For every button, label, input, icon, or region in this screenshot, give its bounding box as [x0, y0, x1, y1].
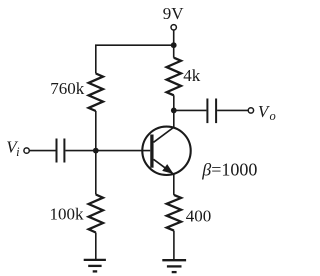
- supply terminal: [171, 25, 176, 30]
- ground right: [162, 260, 186, 272]
- resistor R3 100k: [89, 195, 103, 233]
- wire C1 to base: [65, 150, 150, 152]
- ground left: [84, 260, 106, 272]
- resistor R1 760k: [89, 74, 103, 112]
- input terminal: [24, 148, 29, 153]
- svg-text:Vo: Vo: [258, 102, 276, 123]
- capacitor C2: [207, 99, 216, 124]
- wire input terminal to C1: [29, 150, 55, 152]
- wire base node to R3: [95, 151, 97, 195]
- transistor Q1: [142, 127, 190, 175]
- output terminal: [248, 108, 253, 113]
- svg-text:Vi: Vi: [6, 138, 20, 159]
- wire supply terminal to top rail: [173, 30, 175, 45]
- wire R3 to ground: [95, 233, 97, 260]
- wire C2 to output terminal: [217, 109, 248, 111]
- svg-text:4k: 4k: [183, 66, 201, 85]
- junction collector node: [171, 108, 177, 114]
- resistor R2 4k: [167, 58, 181, 96]
- junction base node: [93, 148, 99, 154]
- junction top rail: [171, 42, 177, 48]
- capacitor C1: [57, 139, 65, 163]
- svg-text:400: 400: [186, 207, 212, 226]
- wire R1 to base node: [95, 111, 97, 151]
- resistor R4 400: [167, 195, 181, 231]
- svg-text:760k: 760k: [50, 79, 85, 98]
- wire emitter to R4: [173, 174, 175, 195]
- wire collector node to C2: [174, 109, 207, 111]
- svg-text:β=1000: β=1000: [201, 159, 257, 179]
- wire top rail: [96, 45, 174, 73]
- svg-text:100k: 100k: [50, 205, 85, 224]
- wire R2 to collector: [173, 95, 175, 127]
- svg-text:9V: 9V: [163, 4, 185, 23]
- wire R4 to ground: [173, 231, 175, 260]
